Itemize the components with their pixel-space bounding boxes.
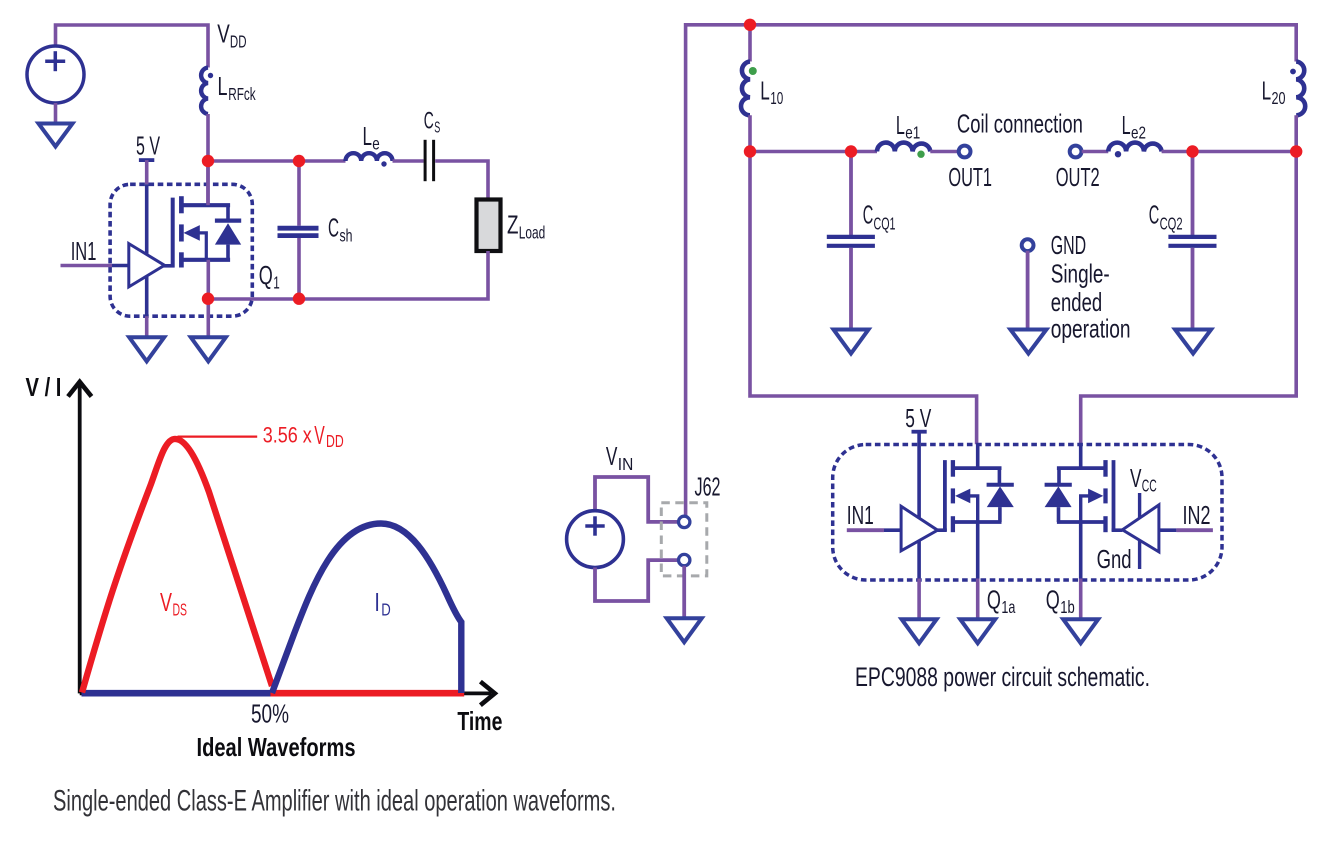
x axis arrow <box>480 682 494 706</box>
svg-text:50%: 50% <box>251 699 289 729</box>
svg-text:ended: ended <box>1051 287 1103 317</box>
wire <box>1162 150 1297 154</box>
Gnd pin <box>1138 541 1141 570</box>
op-amp A2 <box>1122 505 1159 552</box>
wire <box>1082 150 1109 154</box>
svg-text:C: C <box>424 108 434 135</box>
svg-text:e: e <box>372 134 380 154</box>
svg-text:IN2: IN2 <box>1183 500 1211 530</box>
label VDS <box>160 587 187 620</box>
wire <box>849 152 853 236</box>
label ZLoad <box>507 210 545 243</box>
transistor Q1b channel <box>1103 460 1107 532</box>
svg-text:Z: Z <box>507 210 519 240</box>
wire <box>930 150 958 154</box>
ground <box>39 124 73 147</box>
wire drain <box>206 161 210 205</box>
inductor Le <box>346 153 393 161</box>
wire <box>750 115 977 444</box>
svg-text:S: S <box>434 120 440 137</box>
wire <box>56 25 209 68</box>
ground <box>129 337 164 361</box>
svg-text:C: C <box>328 213 339 243</box>
wire <box>54 103 58 125</box>
VDS curve <box>82 439 272 693</box>
svg-text:Coil connection: Coil connection <box>957 109 1083 139</box>
voltage source V1 <box>27 46 84 103</box>
wire <box>976 579 980 621</box>
svg-text:V: V <box>1130 463 1142 493</box>
wire <box>686 25 1297 516</box>
label 3.56xVDD <box>263 420 344 451</box>
svg-text:20: 20 <box>1272 88 1286 108</box>
diode D1a cathode bar <box>987 483 1014 487</box>
label CCQ1 <box>863 200 896 234</box>
label Q1b <box>1046 585 1075 618</box>
capacitor CS <box>425 140 434 181</box>
wire <box>297 238 301 299</box>
resistor ZLoad <box>477 200 501 252</box>
svg-text:1b: 1b <box>1060 597 1075 617</box>
diode D1 anode lead <box>226 245 230 260</box>
ground <box>960 619 995 643</box>
diode D1 cathode bar <box>215 219 241 223</box>
svg-text:GND: GND <box>1051 230 1086 260</box>
label CS <box>424 108 441 137</box>
svg-text:Single-: Single- <box>1051 259 1110 289</box>
wire source rail Q1a <box>953 520 1002 524</box>
wire body <box>197 233 207 260</box>
diode D1a <box>987 486 1014 507</box>
wire gate lead <box>1112 528 1123 532</box>
svg-text:C: C <box>1149 200 1160 230</box>
wire <box>750 150 877 154</box>
diode D1b cathode lead <box>1057 468 1061 485</box>
wire <box>297 161 301 226</box>
op-amp driver A1 <box>129 244 165 287</box>
wire <box>208 251 488 299</box>
wire <box>1026 251 1030 331</box>
ID curve <box>272 524 461 694</box>
inductor Le1 <box>877 143 930 152</box>
junction <box>744 19 756 31</box>
label VCC <box>1130 463 1157 496</box>
svg-text:DD: DD <box>326 431 344 451</box>
label CCQ2 <box>1149 200 1183 234</box>
body arrow Q1b <box>1088 489 1103 504</box>
svg-text:V: V <box>314 420 325 450</box>
svg-text:Q: Q <box>987 585 1001 615</box>
svg-text:D: D <box>381 600 391 620</box>
body arrow Q1a <box>955 489 970 504</box>
polarity dot <box>917 151 924 158</box>
svg-text:CQ2: CQ2 <box>1160 214 1183 234</box>
wire <box>884 528 901 532</box>
transistor Q1b gate <box>1112 460 1116 531</box>
svg-text:Ideal Waveforms: Ideal Waveforms <box>197 732 356 762</box>
svg-text:sh: sh <box>340 226 353 246</box>
inductor Le2 <box>1108 143 1161 152</box>
wire body <box>1081 496 1089 522</box>
transistor Q1 channel <box>179 196 184 267</box>
dashed box U2 <box>833 445 1222 581</box>
wire IN2 <box>1158 528 1177 532</box>
wire IN1 <box>847 528 884 532</box>
svg-text:e2: e2 <box>1131 122 1146 142</box>
svg-text:e1: e1 <box>905 122 920 142</box>
connector J62 <box>661 503 707 576</box>
svg-text:V / I: V / I <box>26 372 62 402</box>
VCC pin <box>1138 493 1141 518</box>
y axis <box>78 384 82 693</box>
diode D1b <box>1045 486 1072 507</box>
inductor L10 <box>741 62 750 116</box>
diode D1b cathode bar <box>1045 483 1072 487</box>
ground <box>1010 330 1046 354</box>
polarity dot <box>1115 151 1121 157</box>
junction <box>202 155 214 167</box>
label VDD <box>217 18 246 51</box>
wire <box>393 159 424 163</box>
svg-text:L: L <box>1262 75 1272 105</box>
polarity dot <box>381 161 386 166</box>
svg-text:L: L <box>218 71 228 101</box>
inductor LRFck <box>201 68 208 115</box>
wire <box>682 566 686 620</box>
svg-text:operation: operation <box>1051 313 1131 343</box>
svg-text:IN1: IN1 <box>71 236 97 266</box>
terminal J62-1 <box>679 516 690 527</box>
svg-text:V: V <box>217 18 230 48</box>
polarity dot <box>749 67 757 75</box>
wire drain rail Q1b <box>1057 466 1106 470</box>
wire source Q1b <box>1079 522 1083 579</box>
wire <box>208 159 346 163</box>
svg-text:DD: DD <box>230 31 247 51</box>
junction <box>1290 145 1302 157</box>
svg-text:EPC9088 power circuit schemati: EPC9088 power circuit schematic. <box>855 662 1150 692</box>
wire <box>1191 248 1195 331</box>
diode D1a cathode lead <box>998 468 1002 485</box>
transistor Q1a channel <box>951 460 955 532</box>
svg-text:Single-ended Class-E Amplifier: Single-ended Class-E Amplifier with idea… <box>53 785 616 818</box>
label VIN <box>606 441 633 474</box>
polarity dot <box>208 73 213 78</box>
junction <box>293 155 305 167</box>
wire drain Q1a <box>976 444 980 468</box>
wire <box>206 114 210 205</box>
diode D1a anode lead <box>998 507 1002 522</box>
label Le <box>363 121 380 154</box>
svg-text:DS: DS <box>173 600 188 620</box>
svg-text:L: L <box>363 121 373 151</box>
inductor L20 <box>1296 62 1305 116</box>
wire <box>1176 528 1213 532</box>
wire <box>595 477 677 522</box>
wire drain rail <box>181 203 230 207</box>
capacitor Csh <box>278 228 319 235</box>
wire <box>145 316 149 339</box>
label ID <box>374 587 390 620</box>
wire <box>849 248 853 331</box>
svg-text:1: 1 <box>273 273 280 293</box>
ground <box>834 330 869 354</box>
svg-text:IN1: IN1 <box>847 500 874 530</box>
wire body <box>970 496 978 522</box>
op-amp A1 <box>901 506 938 551</box>
svg-text:Q: Q <box>259 260 273 290</box>
ground <box>1175 330 1211 354</box>
wire source rail Q1b <box>1057 520 1106 524</box>
svg-text:Time: Time <box>457 706 502 736</box>
svg-text:V: V <box>160 587 172 617</box>
body arrow Q1 <box>184 225 200 241</box>
wire <box>595 560 677 601</box>
svg-text:5 V: 5 V <box>905 403 931 433</box>
diode D1 cathode lead <box>226 205 230 220</box>
svg-text:C: C <box>863 200 874 230</box>
wire <box>112 264 129 268</box>
dashed box U1 <box>110 184 252 316</box>
ID baseline <box>82 690 271 697</box>
svg-text:L: L <box>760 75 770 105</box>
supply bar <box>912 430 927 434</box>
polarity dot <box>1290 69 1296 75</box>
svg-text:CC: CC <box>1142 476 1157 496</box>
transistor Q1a gate <box>943 460 947 531</box>
label GND single-ended operation <box>1051 230 1131 343</box>
terminal GND <box>1022 239 1034 251</box>
voltage source VIN <box>567 511 624 568</box>
junction <box>202 293 214 305</box>
wire <box>1081 115 1297 444</box>
transistor Q1 gate <box>171 198 175 268</box>
capacitor CCQ1 <box>827 237 875 246</box>
wire source Q1a <box>976 522 980 579</box>
capacitor CCQ2 <box>1168 237 1216 246</box>
svg-text:CQ1: CQ1 <box>874 214 896 234</box>
VDS baseline <box>271 690 465 697</box>
svg-text:L: L <box>896 110 905 140</box>
wire <box>748 25 752 62</box>
ground <box>902 619 937 643</box>
svg-text:OUT1: OUT1 <box>948 162 992 192</box>
svg-text:10: 10 <box>770 88 783 108</box>
svg-text:Q: Q <box>1046 585 1060 615</box>
label Csh <box>328 213 353 246</box>
svg-text:IN: IN <box>618 454 634 474</box>
x axis <box>80 692 491 696</box>
diode D1 <box>215 223 241 244</box>
wire source <box>207 260 211 339</box>
y axis arrow <box>68 382 92 397</box>
wire <box>145 184 149 316</box>
supply bar <box>139 158 154 162</box>
wire <box>917 432 921 579</box>
svg-text:5 V: 5 V <box>136 130 160 160</box>
callout line <box>178 436 258 438</box>
wire source rail <box>181 258 230 262</box>
wire IN1 <box>61 264 113 268</box>
junction <box>293 293 305 305</box>
diode D1b anode lead <box>1057 507 1061 522</box>
label Le1 <box>896 110 920 142</box>
svg-text:V: V <box>606 441 618 471</box>
label L20 <box>1262 75 1286 108</box>
svg-text:Gnd: Gnd <box>1097 544 1132 574</box>
label LRFck <box>218 71 256 104</box>
wire gate lead <box>163 264 175 268</box>
svg-text:Load: Load <box>519 223 546 243</box>
wire <box>1079 579 1083 621</box>
ground <box>667 618 702 642</box>
label Q1a <box>987 585 1016 618</box>
svg-text:OUT2: OUT2 <box>1056 162 1100 192</box>
wire <box>435 161 488 200</box>
label Q1 <box>259 260 280 293</box>
svg-text:J62: J62 <box>695 472 721 502</box>
junction <box>845 145 857 157</box>
label Le2 <box>1122 110 1146 142</box>
svg-text:L: L <box>1122 110 1131 140</box>
terminal OUT1 <box>959 146 971 158</box>
wire <box>145 160 149 184</box>
wire <box>917 579 921 621</box>
terminal OUT2 <box>1070 146 1082 158</box>
label L10 <box>760 75 783 108</box>
svg-text:1a: 1a <box>1001 597 1015 617</box>
junction <box>744 145 756 157</box>
wire drain Q1b <box>1079 444 1083 468</box>
svg-text:3.56 x: 3.56 x <box>263 423 313 448</box>
terminal J62-2 <box>679 554 690 565</box>
svg-text:I: I <box>374 587 380 617</box>
junction <box>1186 145 1198 157</box>
svg-text:RFck: RFck <box>228 84 256 104</box>
wire drain rail Q1a <box>953 466 1002 470</box>
ground <box>191 337 226 361</box>
ground <box>1063 619 1098 643</box>
wire <box>1191 152 1195 236</box>
wire gate lead <box>936 528 947 532</box>
